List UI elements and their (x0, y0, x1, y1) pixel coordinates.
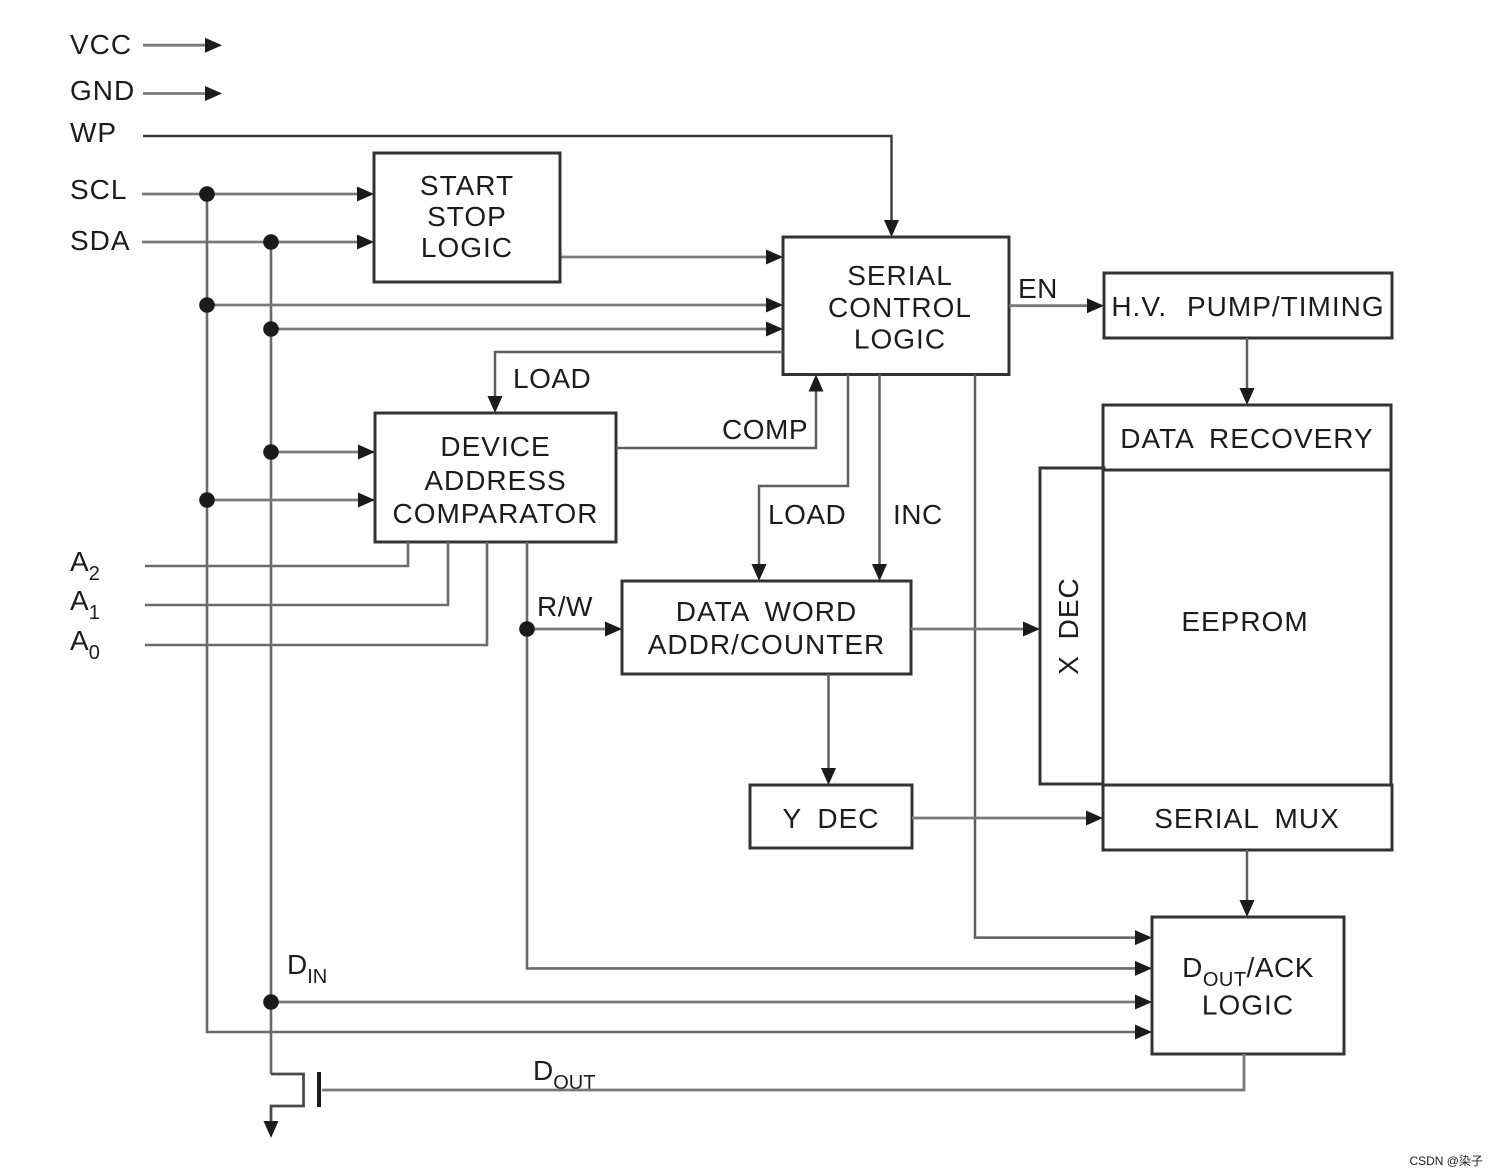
block SERIAL CONTROL LOGIC (783, 237, 1009, 375)
svg-text:R/W: R/W (537, 591, 593, 622)
junction SDA-SDAline (263, 234, 279, 250)
svg-text:START: START (420, 170, 514, 201)
junction SDA-y452 (263, 444, 279, 460)
svg-text:H.V. PUMP/TIMING: H.V. PUMP/TIMING (1111, 291, 1384, 322)
svg-text:EN: EN (1018, 273, 1058, 304)
wire SCL vertical bus (207, 194, 1152, 1040)
svg-text:A0: A0 (70, 625, 100, 664)
wire start stop logic to serial control logic (560, 250, 783, 265)
wire A1 to comparator (145, 542, 448, 605)
wire SDA to device address comparator (271, 445, 375, 460)
wire A0 to comparator (145, 542, 487, 645)
svg-text:LOAD: LOAD (768, 499, 846, 530)
wire COMP comparator to serial control (616, 375, 824, 449)
svg-text:ADDRESS: ADDRESS (424, 465, 566, 496)
block EEPROM (1103, 470, 1391, 785)
block SERIAL MUX (1103, 785, 1392, 850)
svg-text:INC: INC (893, 499, 943, 530)
wire SCL to serial control logic (207, 298, 783, 313)
svg-text:DATA RECOVERY: DATA RECOVERY (1120, 423, 1373, 454)
wire R/W to data word addr counter (527, 622, 622, 637)
wire DOUT from dout ack logic to output transistor gate (322, 1054, 1244, 1090)
svg-text:LOGIC: LOGIC (854, 324, 946, 355)
block H.V. PUMP/TIMING (1104, 273, 1392, 338)
transistor gate bar (317, 1072, 321, 1107)
svg-text:X DEC: X DEC (1053, 577, 1084, 675)
wire A2 to comparator (145, 542, 408, 566)
wire y dec to serial mux (912, 811, 1103, 826)
wire R/W comparator down to dout ack logic (527, 542, 1152, 976)
wire SDA to start stop logic (142, 235, 374, 250)
svg-text:A2: A2 (70, 546, 100, 585)
svg-text:DIN: DIN (287, 949, 327, 988)
wire INC serial control to data word addr counter (872, 375, 887, 582)
block DOUT/ACK LOGIC (1152, 917, 1344, 1054)
block DEVICE ADDRESS COMPARATOR (375, 413, 616, 542)
svg-text:LOGIC: LOGIC (421, 232, 513, 263)
wire data word addr counter to x dec (911, 622, 1040, 637)
block Y DEC (750, 785, 912, 848)
wire SDA to serial control logic (271, 322, 783, 337)
svg-text:COMP: COMP (722, 414, 808, 445)
wire SDA vertical bus (270, 242, 273, 1074)
svg-text:A1: A1 (70, 585, 100, 624)
svg-text:WP: WP (70, 117, 117, 148)
junction SDA-y329 (263, 321, 279, 337)
svg-text:EEPROM: EEPROM (1181, 606, 1308, 637)
ground arrow (264, 1121, 279, 1138)
wire serial mux to dout ack logic (1240, 850, 1255, 917)
svg-text:DOUT: DOUT (533, 1055, 595, 1094)
junction DIN (263, 994, 279, 1010)
wire SCL to start stop logic (142, 187, 374, 202)
wire SCL to device address comparator (207, 493, 375, 508)
wire LOAD serial control to device address comparator (488, 352, 784, 413)
svg-text:DATA WORD: DATA WORD (676, 596, 857, 627)
wire LOAD serial control to data word addr counter (752, 375, 849, 582)
wire DIN to dout ack logic (271, 995, 1152, 1010)
svg-text:GND: GND (70, 75, 135, 106)
svg-text:SERIAL: SERIAL (847, 260, 953, 291)
svg-text:SERIAL MUX: SERIAL MUX (1154, 803, 1340, 834)
wire data word addr counter to y dec (821, 674, 836, 785)
junction SCL-SCLline (199, 186, 215, 202)
wire GND arrow (143, 86, 222, 101)
junction R/W (519, 621, 535, 637)
wire HV pump to data recovery (1240, 338, 1255, 405)
svg-text:CSDN @染子: CSDN @染子 (1409, 1153, 1483, 1168)
svg-text:VCC: VCC (70, 29, 132, 60)
svg-text:LOAD: LOAD (513, 363, 591, 394)
junction SCL-y305 (199, 297, 215, 313)
wire EN serial control to HV pump (1009, 298, 1104, 313)
svg-text:DEVICE: DEVICE (440, 431, 550, 462)
block START STOP LOGIC (374, 153, 560, 282)
wire VCC arrow (143, 38, 222, 53)
svg-text:SDA: SDA (70, 225, 131, 256)
junction SCL-y500 (199, 492, 215, 508)
svg-text:ADDR/COUNTER: ADDR/COUNTER (648, 629, 886, 660)
block DATA RECOVERY (1103, 405, 1391, 470)
transistor output MOSFET drain-source wire (271, 1074, 304, 1122)
svg-text:Y DEC: Y DEC (782, 803, 879, 834)
wire serial control to dout ack logic (975, 375, 1152, 946)
svg-text:CONTROL: CONTROL (828, 292, 972, 323)
svg-text:STOP: STOP (427, 201, 507, 232)
svg-text:COMPARATOR: COMPARATOR (392, 498, 598, 529)
svg-text:SCL: SCL (70, 174, 127, 205)
wire WP to serial control logic (143, 136, 899, 237)
block X DEC (1040, 468, 1104, 784)
block DATA WORD ADDR/COUNTER (622, 581, 911, 674)
svg-text:LOGIC: LOGIC (1202, 990, 1294, 1021)
